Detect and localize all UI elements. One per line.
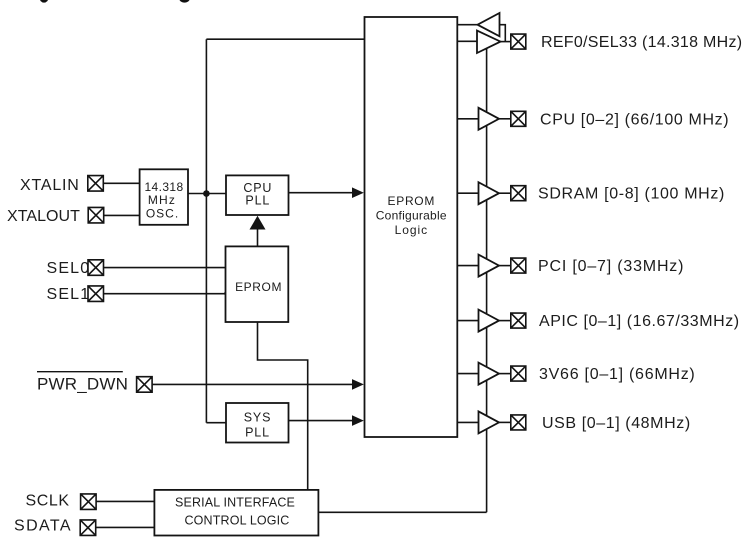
svg-text:APIC [0–1] (16.67/33MHz): APIC [0–1] (16.67/33MHz) [539,313,740,330]
svg-text:EPROM: EPROM [388,194,436,208]
svg-text:PWR_DWN: PWR_DWN [37,374,128,393]
svg-text:XTALIN: XTALIN [20,177,80,194]
svg-text:SCLK: SCLK [26,492,70,509]
svg-text:SERIAL INTERFACE: SERIAL INTERFACE [175,496,295,510]
svg-text:EPROM: EPROM [235,280,282,294]
svg-text:OSC.: OSC. [146,206,179,220]
svg-text:SEL1: SEL1 [47,286,91,303]
svg-text:Logic: Logic [395,223,428,237]
svg-text:SDRAM [0-8] (100 MHz): SDRAM [0-8] (100 MHz) [538,186,725,203]
svg-text:3V66 [0–1] (66MHz): 3V66 [0–1] (66MHz) [539,366,696,383]
svg-text:14.318: 14.318 [144,180,183,194]
svg-text:SYS: SYS [244,411,272,425]
svg-text:PCI [0–7] (33MHz): PCI [0–7] (33MHz) [538,258,684,275]
svg-text:SDATA: SDATA [14,518,72,535]
svg-text:MHz: MHz [148,193,176,207]
svg-text:CPU [0–2] (66/100 MHz): CPU [0–2] (66/100 MHz) [540,111,729,128]
svg-text:Configurable: Configurable [376,209,447,223]
svg-text:SEL0: SEL0 [47,260,91,277]
svg-text:PLL: PLL [245,425,270,439]
svg-text:XTALOUT: XTALOUT [7,208,80,225]
svg-text:REF0/SEL33 (14.318 MHz): REF0/SEL33 (14.318 MHz) [541,34,742,51]
svg-text:CONTROL LOGIC: CONTROL LOGIC [185,513,290,527]
svg-text:USB [0–1] (48MHz): USB [0–1] (48MHz) [542,415,691,432]
svg-text:PLL: PLL [245,193,270,207]
